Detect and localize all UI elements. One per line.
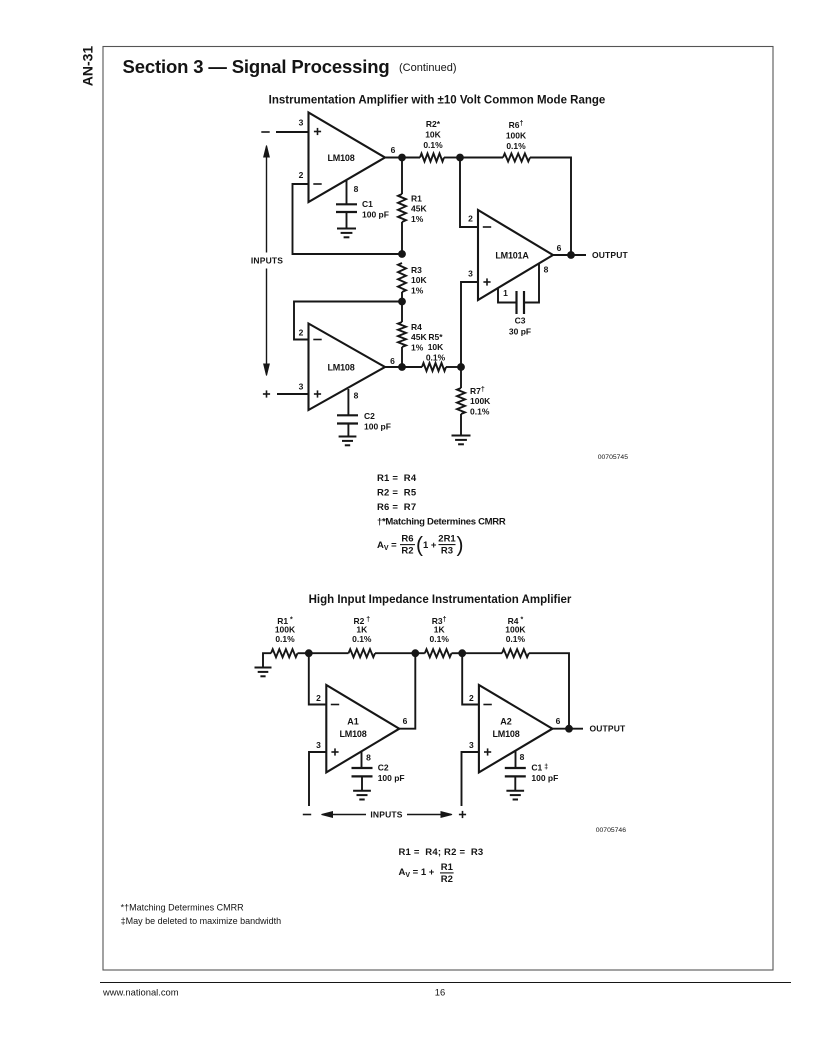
svg-text:OUTPUT: OUTPUT	[590, 724, 627, 734]
svg-text:R1: R1	[441, 862, 454, 873]
capacitor C1 100 pF (A2)	[505, 767, 526, 769]
svg-text:C3: C3	[515, 316, 526, 326]
wire C2 to ground	[347, 424, 349, 437]
input ground (left)	[263, 653, 271, 667]
svg-text:00705745: 00705745	[598, 454, 628, 461]
wire A1 output up to node F	[399, 653, 415, 729]
wire node G to R4	[462, 652, 502, 654]
wire R6 to output node	[530, 158, 571, 256]
wire R3 to node C	[401, 292, 403, 302]
op-amp A1 LM108	[326, 685, 399, 772]
svg-text:R3: R3	[441, 546, 453, 557]
wire input plus to U3 pin 3	[263, 393, 270, 395]
capacitor C2 100 pF	[337, 414, 358, 416]
svg-text:10K: 10K	[425, 130, 441, 140]
capacitor C3 30 pF	[515, 291, 517, 314]
resistor R5 10K 0.1%	[422, 363, 446, 371]
wire node G to A2 pin 2	[462, 653, 479, 704]
svg-text:3: 3	[299, 382, 304, 392]
svg-text:100 pF: 100 pF	[531, 773, 558, 783]
node G junction	[458, 649, 466, 657]
svg-text:C2: C2	[378, 762, 389, 772]
resistor R3 1K 0.1%	[425, 649, 452, 657]
svg-text:1%: 1%	[411, 214, 424, 224]
node F junction	[411, 649, 419, 657]
svg-text:1: 1	[503, 288, 508, 298]
wire R2 to node B	[444, 157, 460, 159]
svg-text:3: 3	[469, 740, 474, 750]
svg-text:10K: 10K	[428, 342, 444, 352]
node D junction	[457, 363, 465, 371]
svg-text:0.1%: 0.1%	[430, 634, 450, 644]
wire U2 pin 1 stub	[498, 288, 516, 303]
svg-text:45K: 45K	[411, 204, 427, 214]
inputs range arrow (circuit 1)	[264, 146, 270, 158]
svg-text:Instrumentation Amplifier with: Instrumentation Amplifier with ±10 Volt …	[269, 95, 606, 107]
wire node C to U3 pin 2	[294, 302, 402, 340]
svg-text:R4: R4	[411, 322, 422, 332]
svg-text:LM101A: LM101A	[495, 251, 529, 261]
svg-text:www.national.com: www.national.com	[102, 986, 179, 997]
wire R1 to node E	[298, 652, 309, 654]
wire R7 to ground	[460, 414, 462, 435]
wire R5 to node D	[446, 366, 461, 368]
svg-text:100 pF: 100 pF	[364, 422, 391, 432]
svg-text:0.1%: 0.1%	[506, 634, 526, 644]
svg-text:(: (	[416, 534, 423, 557]
wire node E to A1 pin 2	[309, 653, 327, 704]
svg-text:8: 8	[366, 753, 371, 763]
svg-text:0.1%: 0.1%	[470, 407, 490, 417]
svg-text:LM108: LM108	[327, 153, 354, 163]
svg-text:8: 8	[520, 752, 525, 762]
op-amp U3 LM108 (bottom)	[309, 324, 386, 411]
wire U2 output	[553, 254, 586, 256]
svg-text:0.1%: 0.1%	[506, 141, 526, 151]
capacitor C2 100 pF (A1)	[352, 767, 373, 769]
svg-text:8: 8	[354, 184, 359, 194]
svg-text:INPUTS: INPUTS	[251, 256, 284, 266]
wire C3 to U2 pin 8 stub	[524, 264, 539, 303]
wire node C to R4	[401, 302, 403, 323]
svg-text:C1: C1	[362, 199, 373, 209]
wire C1 to ground (A2)	[514, 776, 516, 790]
resistor R4 100K 0.1% (A2 feedback)	[502, 649, 529, 657]
svg-text:30 pF: 30 pF	[509, 326, 531, 336]
inputs arrow (circuit 2)	[322, 812, 333, 818]
wire node D to R7	[460, 367, 462, 388]
wire node to R1	[401, 158, 403, 195]
node U3 output junction	[398, 363, 406, 371]
wire A2 pin 8 stub	[515, 751, 517, 768]
svg-text:1 +: 1 +	[423, 540, 437, 551]
svg-text:(Continued): (Continued)	[399, 62, 456, 74]
svg-text:Section 3 — Signal Processing: Section 3 — Signal Processing	[123, 56, 390, 77]
svg-text:6: 6	[556, 716, 561, 726]
svg-text:High Input Impedance Instrumen: High Input Impedance Instrumentation Amp…	[309, 594, 572, 606]
svg-text:R6†: R6†	[509, 120, 524, 130]
svg-text:6: 6	[557, 243, 562, 253]
svg-text:3: 3	[299, 118, 304, 128]
svg-text:LM108: LM108	[492, 729, 519, 739]
resistor R1 100K 0.1% (A1 input)	[271, 649, 298, 657]
node U1 output junction	[398, 154, 406, 162]
svg-text:R2: R2	[401, 546, 413, 557]
svg-text:LM108: LM108	[327, 363, 354, 373]
page frame border	[103, 47, 773, 971]
svg-text:100 pF: 100 pF	[362, 210, 389, 220]
svg-text:0.1%: 0.1%	[423, 140, 443, 150]
svg-text:2: 2	[316, 693, 321, 703]
wire R2 to node F	[375, 652, 415, 654]
svg-text:‡May be deleted to maximize ba: ‡May be deleted to maximize bandwidth	[121, 916, 282, 926]
svg-text:†*Matching Determines CMRR: †*Matching Determines CMRR	[377, 517, 506, 528]
svg-text:A1: A1	[347, 717, 359, 727]
resistor R2 10K 0.1%	[420, 154, 444, 162]
ground below C1 (A2)	[506, 790, 524, 792]
wire R4 to A2 output node	[529, 653, 569, 729]
svg-text:1%: 1%	[411, 286, 424, 296]
svg-text:0.1%: 0.1%	[352, 634, 372, 644]
footer rule	[100, 982, 791, 984]
wire U1 pin 8 stub	[346, 180, 348, 204]
wire U1 pin 2 feedback loop to node A	[293, 184, 403, 254]
wire node B down to U2 pin 2	[460, 158, 478, 228]
svg-text:R5*: R5*	[428, 332, 443, 342]
svg-text:100K: 100K	[506, 131, 527, 141]
svg-text:2: 2	[468, 214, 473, 224]
svg-text:3: 3	[316, 740, 321, 750]
wire U3 output	[385, 366, 422, 368]
resistor R2 1K 0.1%	[349, 649, 376, 657]
wire U1 output	[385, 157, 420, 159]
op-amp U1 LM108 (top)	[309, 113, 386, 203]
svg-text:0.1%: 0.1%	[275, 634, 295, 644]
wire U3 pin 8 stub	[347, 389, 349, 415]
node A junction	[398, 250, 406, 258]
node E junction	[305, 649, 313, 657]
svg-text:0.1%: 0.1%	[426, 353, 446, 363]
svg-text:INPUTS: INPUTS	[370, 810, 403, 820]
svg-text:R1 = R4; R2 = R3: R1 = R4; R2 = R3	[399, 847, 484, 858]
svg-text:R6 = R7: R6 = R7	[377, 502, 416, 513]
svg-text:2: 2	[299, 328, 304, 338]
svg-text:6: 6	[403, 716, 408, 726]
svg-text:8: 8	[544, 265, 549, 275]
resistor R1 45K 1%	[398, 194, 406, 222]
svg-text:R6: R6	[401, 534, 413, 545]
svg-text:6: 6	[391, 145, 396, 155]
wire A2 pin 3 input	[462, 752, 479, 806]
wire node D up to U2 pin 3	[461, 282, 478, 367]
node U2 output junction	[567, 251, 575, 259]
svg-text:3: 3	[468, 269, 473, 279]
svg-text:6: 6	[390, 356, 395, 366]
svg-text:OUTPUT: OUTPUT	[592, 250, 629, 260]
ground below C2	[339, 436, 357, 438]
svg-text:LM108: LM108	[339, 729, 366, 739]
resistor R6 100K 0.1%	[503, 154, 530, 162]
svg-text:A2: A2	[500, 717, 512, 727]
svg-text:1%: 1%	[411, 343, 424, 353]
input plus terminal (circuit 2)	[459, 814, 466, 816]
svg-text:AV =: AV =	[377, 540, 397, 552]
capacitor C1 100 pF	[336, 203, 357, 205]
wire R4 to U3 output node	[401, 347, 403, 367]
wire C1 to ground	[346, 212, 348, 228]
resistor R7 100K 0.1%	[457, 388, 465, 414]
svg-text:*†Matching Determines CMRR: *†Matching Determines CMRR	[121, 902, 245, 912]
svg-text:2: 2	[299, 170, 304, 180]
svg-text:16: 16	[435, 986, 445, 997]
op-amp A2 LM108	[479, 685, 553, 772]
svg-text:R1: R1	[411, 194, 422, 204]
node C junction	[398, 298, 406, 306]
svg-text:C1 ‡: C1 ‡	[531, 762, 548, 772]
ground below R7	[452, 435, 471, 437]
svg-text:8: 8	[354, 391, 359, 401]
node B junction	[456, 154, 464, 162]
wire R1 to node A	[401, 222, 403, 254]
svg-text:100K: 100K	[470, 396, 491, 406]
svg-text:AV = 1 +: AV = 1 +	[399, 867, 435, 879]
svg-text:R7†: R7†	[470, 386, 485, 396]
input minus terminal (circuit 2)	[303, 814, 311, 816]
svg-text:R2*: R2*	[426, 119, 441, 129]
resistor R4 45K 1%	[398, 322, 406, 347]
op-amp U2 LM101A	[478, 210, 553, 300]
wire input minus to U1 pin 3	[261, 131, 269, 133]
wire node E to R2	[309, 652, 349, 654]
svg-text:45K: 45K	[411, 332, 427, 342]
svg-text:): )	[457, 534, 464, 557]
wire A1 pin 3 input	[309, 752, 326, 806]
wire node B to R6	[460, 157, 503, 159]
svg-text:100 pF: 100 pF	[378, 773, 405, 783]
svg-text:C2: C2	[364, 411, 375, 421]
wire C2 to ground (A1)	[361, 776, 363, 790]
svg-text:10K: 10K	[411, 275, 427, 285]
wire node F to R3	[415, 652, 425, 654]
node A2 output junction	[565, 725, 573, 733]
svg-text:R2: R2	[441, 874, 453, 885]
svg-text:2: 2	[469, 693, 474, 703]
ground below C2 (A1)	[353, 790, 371, 792]
svg-text:00705746: 00705746	[596, 827, 626, 834]
svg-text:R1 = R4: R1 = R4	[377, 473, 417, 484]
svg-text:AN-31: AN-31	[80, 46, 96, 87]
resistor R3 10K 1%	[398, 263, 406, 292]
svg-text:2R1: 2R1	[438, 534, 456, 545]
wire R3 to node G	[452, 652, 463, 654]
wire A1 pin 8 stub	[361, 752, 363, 769]
wire A2 output	[552, 728, 583, 730]
svg-text:R3: R3	[411, 265, 422, 275]
ground below C1	[337, 228, 356, 230]
svg-text:R2 = R5: R2 = R5	[377, 488, 417, 499]
